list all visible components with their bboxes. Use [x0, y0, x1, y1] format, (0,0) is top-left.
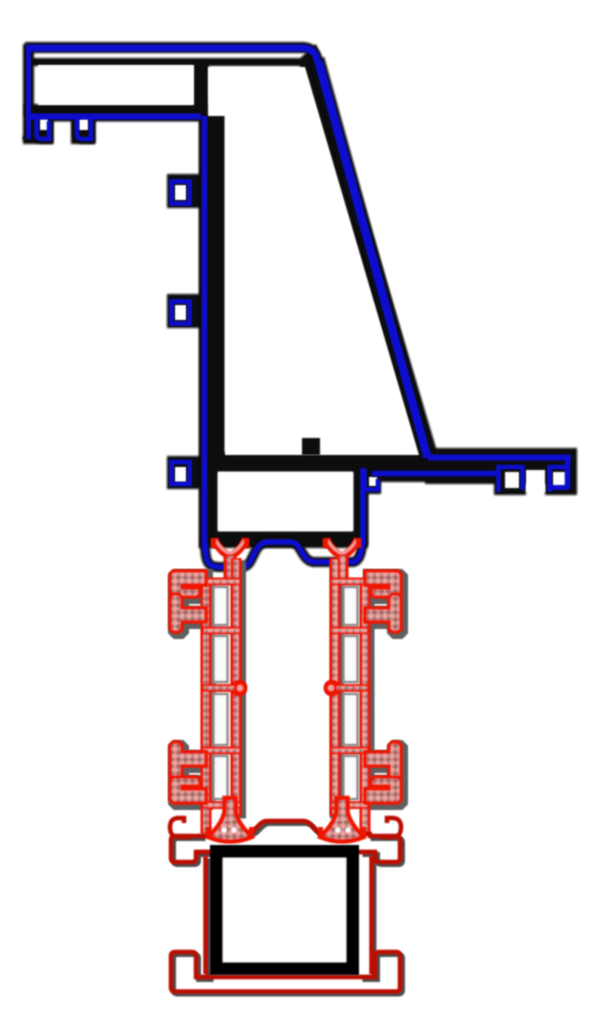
right bottom stem	[336, 798, 349, 810]
bead bottom flange outline	[174, 955, 403, 995]
left Y-clip stem core	[227, 556, 233, 581]
right fin B	[365, 594, 401, 632]
wall hook A notch	[175, 185, 186, 200]
left tube outer wall	[201, 578, 212, 834]
blue diagonal core	[319, 62, 428, 457]
frame screw leg right	[71, 113, 95, 144]
screw leg left notch	[40, 119, 48, 130]
bead left wall red	[203, 856, 208, 974]
glazing square	[217, 852, 353, 969]
right fin B2	[365, 742, 401, 780]
shadow right fin A2	[368, 780, 404, 806]
bead gasket arch	[246, 821, 330, 834]
shadow left fin B2	[173, 745, 209, 783]
bead right wall red	[369, 856, 374, 974]
left tube rung 3	[203, 684, 236, 692]
left bottom crown tip L	[206, 827, 211, 838]
screw leg right notch	[79, 119, 88, 130]
halo diagonal wide	[317, 59, 428, 458]
frame diagonal web band	[298, 44, 439, 458]
wing underside bar	[366, 466, 496, 482]
right Y-clip crown core	[328, 540, 357, 554]
frame profile blue contour	[26, 46, 571, 567]
wing clip leg 1 body	[494, 461, 526, 495]
halo screw leg right	[77, 116, 91, 139]
blue hook A ring	[172, 182, 190, 204]
blue screw leg left	[37, 118, 50, 139]
blue bottom arch	[205, 542, 362, 567]
left tube rung 2	[203, 627, 240, 635]
blue wing right edge	[565, 458, 571, 489]
wing clip leg 2 notch	[553, 472, 566, 488]
left tube rung 1	[203, 578, 240, 586]
blue hook C ring	[172, 462, 190, 484]
bead left end curl	[170, 818, 190, 837]
frame main vertical wall	[199, 103, 225, 463]
blue box right line	[360, 468, 366, 546]
left fin B2	[170, 742, 206, 780]
left tube rung 5	[203, 801, 240, 809]
right fin A	[365, 571, 401, 597]
right bottom crown tip R	[361, 827, 366, 838]
frame profile black halo lines	[25, 44, 428, 567]
right tube cell 2	[344, 636, 358, 682]
halo screw leg left	[37, 118, 50, 139]
bead top line right segment	[356, 832, 372, 837]
blue underside line	[372, 471, 500, 477]
left crown eye 2	[231, 827, 236, 832]
frame wall hook C body	[167, 456, 205, 489]
left crown eye 1	[221, 827, 226, 832]
shadow right fin A	[368, 574, 404, 600]
right bottom crown tip L	[318, 827, 323, 838]
left fin A2	[170, 777, 206, 803]
left Y-clip crown core	[216, 540, 245, 554]
mullion right fins	[365, 571, 401, 803]
right Y-clip stem core	[339, 556, 345, 581]
shadow right fin B	[368, 597, 404, 635]
left tube cell 2	[214, 636, 228, 682]
blue main wall line	[202, 116, 208, 550]
right bottom crown	[321, 798, 364, 842]
shadow left fin A2	[173, 780, 209, 806]
right tube inner wall core	[333, 560, 338, 814]
bead top flange left hook red	[171, 836, 211, 862]
bead bottom flange inner line	[196, 975, 375, 980]
right tube rung 3	[335, 684, 368, 692]
wing clip leg 1 notch	[505, 472, 519, 488]
sloped chamber	[208, 67, 419, 455]
frame screw leg left	[31, 113, 53, 144]
right tube rung 1	[331, 578, 368, 586]
shadow left tube outer wall	[202, 581, 216, 803]
left Y-clip crown	[214, 539, 246, 556]
left tube cell 3	[214, 694, 228, 745]
bead bottom flange outline red	[171, 952, 400, 992]
mullion left fins	[170, 571, 206, 803]
blue clip leg 1	[499, 467, 523, 492]
blue clip leg 2	[550, 467, 570, 492]
shadow left tube inner wall	[232, 561, 246, 819]
blue hook B ring	[172, 302, 190, 324]
chamber tab stop	[302, 438, 320, 455]
right tube inner wall	[330, 558, 341, 816]
bead profile shadows	[174, 824, 403, 995]
right tube rung 2	[331, 627, 368, 635]
halo left wall	[23, 44, 34, 141]
blue wing bottom right	[548, 485, 568, 490]
blue bottom bar	[28, 114, 201, 120]
glazing box bottom wall	[199, 531, 368, 548]
bead profile red lines	[170, 818, 401, 992]
bead left wall	[206, 859, 211, 977]
right tube knot core	[328, 685, 334, 691]
shadow right fin B2	[368, 745, 404, 783]
frame left wall cap	[23, 136, 34, 144]
wall hook C notch	[175, 467, 186, 482]
frame right wing slab	[425, 448, 577, 484]
bead top line left segment	[199, 834, 216, 839]
right tube knot	[324, 680, 341, 697]
mullion right tube	[324, 538, 369, 834]
wall hook B notch	[175, 305, 186, 320]
blue wing top line	[428, 455, 571, 461]
right tube rung 4	[331, 747, 368, 755]
mullion left tube	[203, 538, 248, 834]
glazing box right wall	[353, 455, 368, 548]
frame inner top wall	[29, 58, 309, 66]
right tube rung 5	[331, 801, 368, 809]
chamber tab body	[302, 438, 320, 455]
frame bottom band	[199, 452, 431, 472]
shadow right tube inner wall	[330, 561, 344, 819]
blue screw leg right	[77, 116, 91, 139]
right tube cell 1	[344, 587, 358, 625]
halo bottom arch	[205, 542, 362, 567]
left bottom stem	[224, 798, 237, 810]
left tube cell 1	[214, 587, 228, 625]
left tube cell 4	[214, 756, 228, 799]
left Y-clip stem	[224, 554, 237, 583]
top bar chamber	[38, 65, 194, 105]
frame wall hook A body	[167, 174, 205, 208]
right tube cell 3	[344, 694, 358, 745]
shadow left fin A	[173, 574, 209, 600]
left Y-clip tip L	[211, 538, 217, 548]
right Y-clip stem	[336, 554, 349, 583]
frame profile chambers	[38, 65, 566, 531]
left tube knot	[231, 680, 248, 697]
right Y-clip crown	[326, 539, 358, 556]
left tube inner wall	[231, 558, 242, 816]
frame wall hook B body	[167, 294, 205, 328]
bead top flange inner line	[196, 850, 375, 855]
right tube cell 4	[344, 756, 358, 799]
left bottom crown tip R	[249, 827, 254, 838]
bead right end curl	[381, 818, 401, 837]
halo main wall line	[200, 116, 210, 548]
left tube outer wall core	[204, 580, 209, 832]
left tube inner wall core	[234, 560, 239, 814]
frame chamber divider wall	[192, 58, 209, 116]
right crown eye 1	[335, 827, 340, 832]
bead right wall	[372, 859, 377, 977]
right tube outer wall core	[363, 580, 368, 832]
bead top flange right hook red	[360, 836, 400, 862]
right fin A2	[365, 777, 401, 803]
glazing box chamber	[218, 472, 353, 531]
wing left tab notch	[369, 477, 377, 486]
left tube knot core	[237, 685, 243, 691]
mullion shadow	[173, 561, 404, 819]
wing clip slot	[526, 470, 545, 492]
mullion bottom crowns	[209, 798, 364, 842]
frame chamber bottom wall	[24, 104, 211, 116]
blue left wall	[26, 46, 31, 139]
shadow gasket arch	[249, 824, 325, 837]
right tube outer wall	[360, 578, 371, 834]
right Y-clip tip R	[356, 538, 362, 548]
right Y-clip tip L	[323, 538, 329, 548]
left tube rung 4	[203, 747, 240, 755]
glazing square	[217, 852, 353, 969]
right crown eye 2	[345, 827, 350, 832]
left bottom crown	[209, 798, 252, 842]
bead top flange right hook	[363, 839, 403, 865]
halo box right line	[358, 468, 368, 545]
halo bottom bar	[28, 112, 201, 122]
blue top edge and diagonal	[26, 48, 427, 458]
wing right end body	[566, 452, 577, 495]
wing clip leg 2 body	[545, 461, 577, 495]
halo top edge and diagonal	[25, 48, 428, 459]
bead top flange left hook	[174, 839, 214, 865]
shadow right tube outer wall	[361, 581, 375, 803]
blue left tab	[365, 470, 379, 490]
glazing box left wall	[199, 463, 218, 548]
left fin B	[170, 594, 206, 632]
left fin A	[170, 571, 206, 597]
frame profile black walls	[23, 44, 577, 548]
shadow left fin B	[173, 597, 209, 635]
wing left tab body	[361, 468, 381, 494]
left Y-clip tip R	[244, 538, 250, 548]
